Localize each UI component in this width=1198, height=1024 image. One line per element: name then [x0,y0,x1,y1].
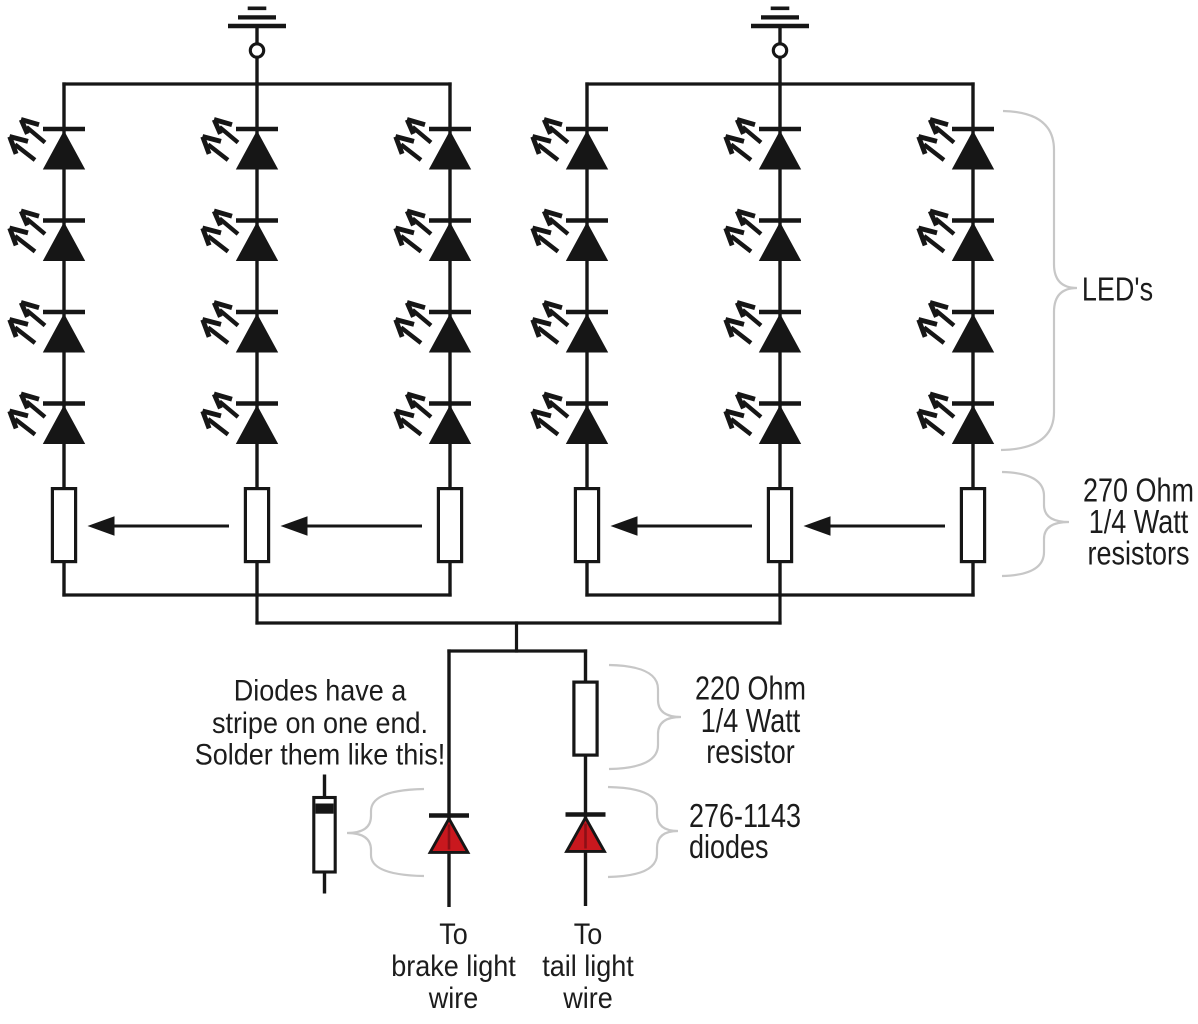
svg-text:wire: wire [428,982,478,1014]
LED D9 (row 2, column 3) [396,211,472,261]
LED D17 (row 3, column 5) [726,303,802,353]
diode CR1 (brake branch, 276-1143) [429,816,469,853]
LED D11 (row 2, column 5) [726,211,802,261]
wire: right ground to top bus [778,57,781,85]
wire: column 5 resistor to bottom bus [778,562,781,597]
LED D4 (row 1, column 4) [533,120,609,170]
wire: column 5 (top bus through LED string to resistor) [778,82,781,488]
wire: left ground to top bus [255,57,258,85]
wire: brake branch [447,649,450,907]
LED D5 (row 1, column 5) [726,120,802,170]
diode CR2 (tail branch, 276-1143) [566,815,606,852]
svg-text:To: To [574,918,603,950]
svg-text:Diodes have a: Diodes have a [234,675,407,707]
LED D2 (row 1, column 2) [203,120,279,170]
wire: column 6 (top bus through LED string to resistor) [971,82,974,488]
wire: column 3 resistor to bottom bus [448,562,451,597]
brace: LED's callout [1001,111,1077,450]
wire: column 2 drop to link bus [255,595,258,625]
LED D1 (row 1, column 1) [10,120,86,170]
wire: bottom bus, right bank [585,593,974,596]
wire: lower link to brake and tail branches [447,649,587,652]
LED D10 (row 2, column 4) [533,211,609,261]
wire: tail branch [584,649,587,906]
LED D8 (row 2, column 2) [203,211,279,261]
diode package drawing: stripe [315,804,333,814]
svg-text:resistors: resistors [1088,536,1190,572]
resistor R2 270 Ohm [245,489,268,562]
LED D6 (row 1, column 6) [919,120,995,170]
resistor R3 270 Ohm [438,489,461,562]
svg-text:diodes: diodes [689,830,769,866]
ground symbol (left bank) [228,8,286,57]
LED D14 (row 3, column 2) [203,303,279,353]
ground symbol (right bank) [751,8,809,57]
LED D19 (row 4, column 1) [10,394,86,444]
LED D18 (row 3, column 6) [919,303,995,353]
LED D7 (row 2, column 1) [10,211,86,261]
diode package drawing: bottom lead [323,873,326,894]
svg-text:To: To [439,918,468,950]
LED D15 (row 3, column 3) [396,303,472,353]
brace: 220 Ohm resistor callout [609,665,681,769]
arrow 3 (pointing left between resistors) [611,516,753,536]
wire: top bus, right bank [585,82,974,85]
svg-text:tail light: tail light [542,950,634,982]
resistor R6 270 Ohm [961,489,984,562]
resistor R4 270 Ohm [575,489,598,562]
wire: center stub down from link bus [515,621,518,652]
LED D12 (row 2, column 6) [919,211,995,261]
brace: diode package callout (points left) [347,789,424,876]
LED D23 (row 4, column 5) [726,394,802,444]
arrow 1 (pointing left between resistors) [88,516,230,536]
svg-text:wire: wire [562,982,612,1014]
wire: column 4 (top bus through LED string to resistor) [585,82,588,488]
LED D20 (row 4, column 2) [203,394,279,444]
resistor R5 270 Ohm [768,489,791,562]
svg-text:stripe on one end.: stripe on one end. [212,707,428,739]
LED D24 (row 4, column 6) [919,394,995,444]
brace: 276-1143 diodes callout [608,787,678,877]
LED D22 (row 4, column 4) [533,394,609,444]
svg-text:Solder them like this!: Solder them like this! [195,739,446,771]
wire: link bus joining both banks [255,621,781,624]
LED D16 (row 3, column 4) [533,303,609,353]
wire: column 3 (top bus through LED string to resistor) [448,82,451,488]
wire: bottom bus, left bank [62,593,451,596]
wire: top bus, left bank [62,82,451,85]
svg-text:brake light: brake light [391,950,516,982]
resistor R7 220 Ohm [574,682,597,755]
arrow 4 (pointing left between resistors) [804,516,946,536]
svg-text:LED's: LED's [1082,272,1153,308]
wire: column 1 (top bus through LED string to resistor) [62,82,65,488]
wire: column 2 (top bus through LED string to resistor) [255,82,258,488]
svg-text:220 Ohm: 220 Ohm [695,671,806,707]
diode package drawing: top lead [323,775,326,799]
wire: column 1 resistor to bottom bus [62,562,65,597]
wire: column 2 resistor to bottom bus [255,562,258,597]
LED D21 (row 4, column 3) [396,394,472,444]
brace: 270 Ohm resistors callout [1002,472,1069,576]
wire: column 6 resistor to bottom bus [971,562,974,597]
diode package drawing: body [314,798,335,873]
LED D13 (row 3, column 1) [10,303,86,353]
svg-text:resistor: resistor [706,735,795,771]
wire: column 4 resistor to bottom bus [585,562,588,597]
resistor R1 270 Ohm [52,489,75,562]
arrow 2 (pointing left between resistors) [281,516,423,536]
wire: column 5 drop to link bus [778,595,781,625]
LED D3 (row 1, column 3) [396,120,472,170]
